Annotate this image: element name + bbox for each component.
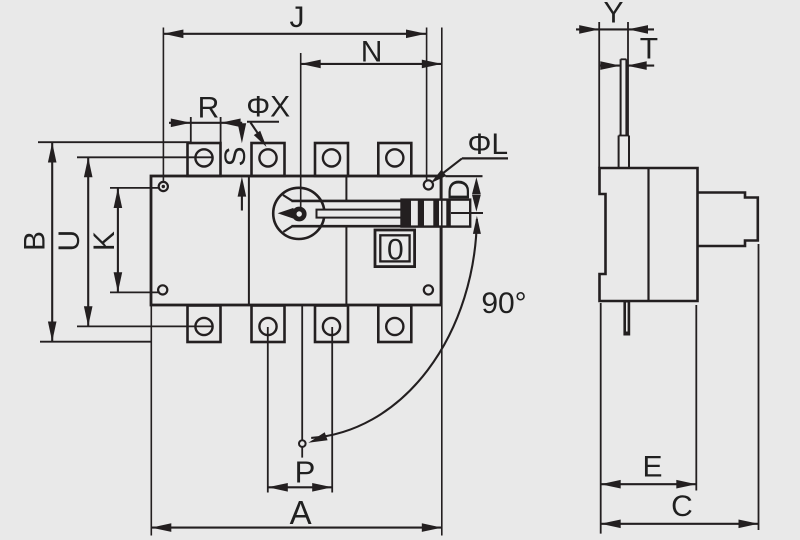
svg-text:B: B <box>19 231 52 251</box>
dimension N / A shared extension line right <box>441 28 443 536</box>
dimension U line with arrows <box>77 157 213 326</box>
dimension A line with arrows <box>151 523 442 532</box>
top terminal block 2 <box>252 143 285 176</box>
label U (rotated) <box>53 230 86 252</box>
handle hub circle <box>273 188 324 239</box>
front view: internal divider line left <box>248 176 250 305</box>
handle grip (striped) <box>402 200 471 227</box>
label T <box>640 33 658 66</box>
label K (rotated) <box>88 231 121 251</box>
side view: bottom pin <box>623 301 630 336</box>
handle hub centre boss <box>292 207 307 222</box>
label C <box>671 490 693 523</box>
top terminal block 3 <box>315 143 348 176</box>
side view: body outline with notched left edge <box>600 168 698 301</box>
dimension E line with arrows <box>601 480 697 489</box>
P centre point circle <box>299 440 306 447</box>
side view: terminal plug on right <box>698 193 758 247</box>
label D (rotated) <box>443 179 476 201</box>
front view: internal divider line right (interrupted by handle shaft) <box>345 176 347 305</box>
side view: thin handle shaft top <box>621 59 627 135</box>
bottom terminal block 1 <box>188 306 221 343</box>
side view dimension extension lines <box>601 244 759 534</box>
front view: switch body outline <box>151 176 441 305</box>
dimension N line with arrows <box>301 60 442 69</box>
dimension D opposed arrows <box>472 177 481 211</box>
dimension A extension line left <box>150 305 152 536</box>
dimension P line with arrows <box>268 483 332 492</box>
svg-text:ΦL: ΦL <box>467 128 508 161</box>
label R <box>198 91 220 124</box>
svg-text:0: 0 <box>387 233 404 266</box>
label S (rotated) <box>219 146 252 166</box>
svg-text:D: D <box>443 179 476 201</box>
mounting hole bottom-right <box>424 285 433 294</box>
svg-text:ΦX: ΦX <box>246 91 290 124</box>
bottom terminal block 4 <box>378 306 411 343</box>
svg-text:P: P <box>295 455 316 490</box>
dimension T line with arrows <box>600 61 654 70</box>
dimension K line with arrows <box>110 188 159 293</box>
mounting hole top-left with centre dot <box>159 182 168 191</box>
svg-text:K: K <box>88 231 121 251</box>
dimension J line with arrows <box>163 30 426 39</box>
label P <box>295 455 316 490</box>
label Y <box>603 0 623 29</box>
dimension P extension lines <box>268 327 332 493</box>
dimension C line with arrows <box>601 520 759 529</box>
dimension D extension lines <box>445 176 483 213</box>
handle shaft inner bar <box>317 210 402 218</box>
bottom terminal block 3 <box>315 306 348 343</box>
svg-text:A: A <box>290 494 312 531</box>
90 degree swing arc with end arrows <box>308 216 481 443</box>
mounting hole bottom-left <box>158 285 167 294</box>
svg-text:J: J <box>290 1 305 34</box>
svg-text:S: S <box>219 146 252 166</box>
label PhiX with leader arrow to terminal hole <box>246 91 290 147</box>
top terminal block 1 <box>188 143 221 176</box>
svg-text:U: U <box>53 230 86 252</box>
label B (rotated) <box>19 231 52 251</box>
label E <box>642 451 662 484</box>
label J <box>290 1 305 34</box>
top terminal block 4 <box>378 143 411 176</box>
svg-text:90°: 90° <box>481 287 526 320</box>
handle centre line up to dimension N <box>300 53 302 207</box>
handle pointer triangle <box>278 208 294 219</box>
handle shaft outline <box>283 195 403 232</box>
dimension S arrows (terminal height) <box>238 123 247 210</box>
side view: internal divider <box>647 168 649 301</box>
label PhiL with leader arrow to mounting hole <box>431 128 509 183</box>
side view: shaft base block <box>619 136 629 169</box>
svg-text:T: T <box>640 33 658 66</box>
dimension J extension line right <box>426 28 428 181</box>
label N <box>361 36 383 69</box>
svg-text:Y: Y <box>603 0 623 29</box>
svg-text:C: C <box>671 490 693 523</box>
label 90 degrees <box>481 287 526 320</box>
bottom terminal block 2 <box>252 306 285 343</box>
mounting hole top-right <box>424 180 433 189</box>
dimension R line with arrows <box>169 117 242 143</box>
svg-text:E: E <box>642 451 662 484</box>
indicator window with 0 <box>375 230 415 267</box>
label A <box>290 494 312 531</box>
svg-text:R: R <box>198 91 220 124</box>
centre line from body to P point <box>301 305 303 458</box>
dimension J extension line left <box>162 28 164 183</box>
dimension Y line with arrows <box>576 22 654 168</box>
svg-text:N: N <box>361 36 383 69</box>
dimension B line with arrows <box>38 142 190 342</box>
